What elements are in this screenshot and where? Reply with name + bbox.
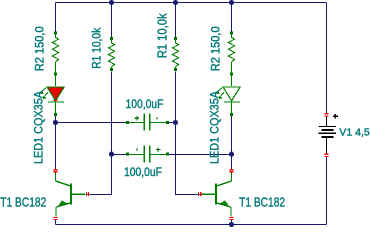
plate long + [319, 126, 337, 127]
node B: C1 right / R1b bottom [173, 120, 178, 125]
pin marker: collector [54, 169, 58, 170]
node A: left LED cathode / C1 left / left collector [53, 120, 58, 125]
svg-text:R1 10,0k: R1 10,0k [154, 13, 169, 58]
resistor R2 (left, 150 ohm) [52, 34, 58, 72]
svg-text:V1 4,5: V1 4,5 [339, 126, 370, 138]
emission arrows [42, 88, 45, 91]
wire: R1b bottom through node B down and right to T1 right base [176, 72, 202, 195]
wire: node A down to T1 left collector [55, 123, 57, 170]
LED1 CQX35A (right, off) [216, 76, 240, 117]
svg-text:T1 BC182: T1 BC182 [0, 195, 46, 210]
pin marker: battery - [325, 154, 329, 155]
polarity - tick (right) [157, 117, 158, 120]
node: rail junction above R1b [173, 0, 178, 5]
svg-text:LED1 CQX35A: LED1 CQX35A [207, 91, 221, 164]
capacitor C1 (top, 100uF) [126, 114, 169, 131]
battery V1 4,5V [319, 113, 338, 157]
svg-text:LED1 CQX35A: LED1 CQX35A [31, 91, 45, 164]
polarity - tick (left) [136, 148, 137, 151]
node: bottom rail junction at right emitter [229, 222, 234, 227]
pin marker: battery + [325, 113, 329, 114]
wire: node A to C1 left pin (crosses R1a wire, no junction) [56, 122, 127, 124]
emission arrows [218, 88, 221, 91]
wire: left LED cathode to node A [55, 116, 57, 123]
transistor Q1 / T1 left (BC182, mirrored) [54, 169, 90, 220]
wire: C2 right pin to node D (crosses R1b wire, no junction) [169, 154, 232, 156]
pin marker: emitter [54, 217, 58, 218]
resistor R2 (right, 150 ohm) [228, 34, 234, 72]
wire: right vertical to battery top [326, 3, 328, 114]
plate short thick [321, 129, 333, 131]
wire: R1a branch from rail to resistor [111, 3, 113, 38]
plate short thick [321, 136, 333, 138]
node: rail junction above R2 right [229, 0, 234, 5]
polarity + (right) [156, 147, 161, 151]
wire: node C to C2 left pin [112, 154, 127, 156]
wire: T1 right emitter to bottom rail [231, 220, 233, 225]
wire: left branch top (rail to R2) [55, 3, 57, 32]
pin marker: base [198, 192, 199, 196]
capacitor C2 (bottom, 100uF) [126, 146, 169, 163]
plate long [319, 133, 337, 134]
svg-text:R1 10,0k: R1 10,0k [91, 28, 103, 69]
polarity + (left) [135, 116, 140, 120]
pin marker: left LED cathode [54, 100, 58, 101]
wire: top supply rail [56, 2, 327, 4]
wire: R1b branch from rail to resistor [175, 3, 177, 38]
LED1 CQX35A (left, lit red) [40, 76, 64, 117]
resistor R1 (left, 10k) [108, 40, 114, 68]
wire: C1 right pin to node B [169, 122, 176, 124]
svg-text:R2 150,0: R2 150,0 [210, 26, 222, 71]
plus sign [333, 114, 338, 119]
wire: right branch top (rail to R2 right) [231, 3, 233, 32]
wire: bottom ground rail [56, 224, 327, 226]
wire: T1 left emitter to bottom rail [55, 220, 57, 225]
node D: C2 right / right LED cathode / right collector [229, 152, 234, 157]
pin marker: emitter [230, 217, 234, 218]
pin marker: collector [230, 169, 234, 170]
svg-text:100,0uF: 100,0uF [126, 99, 164, 111]
node: rail junction above R1a [109, 0, 114, 5]
svg-text:R2 150,0: R2 150,0 [34, 26, 46, 71]
wire: right LED cathode to node D [231, 116, 233, 154]
svg-text:T1 BC182: T1 BC182 [239, 195, 285, 210]
resistor R1 (right, 10k) [172, 40, 178, 68]
wire: right vertical from battery bottom [326, 156, 328, 224]
transistor Q2 / T1 right (BC182) [198, 169, 233, 220]
node C: R1a bottom / C2 left [109, 152, 114, 157]
wire: R1a bottom through node C down and left to T1 left base [86, 72, 112, 195]
pin marker: base [86, 192, 87, 196]
svg-text:100,0uF: 100,0uF [124, 167, 162, 179]
wire: node D down to T1 right collector [231, 154, 233, 169]
